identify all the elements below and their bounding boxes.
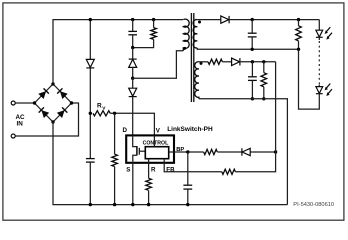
node: rail junction at clamp cap (131, 18, 134, 21)
wire: rail to clamp cap (132, 20, 134, 32)
node: bias rail at cap (251, 60, 254, 63)
wire: bias bleed resistor top lead (263, 62, 265, 73)
wire: divider to ground rail (114, 167, 116, 205)
wire: preload resistor top lead (298, 20, 300, 26)
svg-text:CONTROL: CONTROL (143, 141, 169, 147)
wire: bridge - down to primary ground rail (53, 122, 287, 205)
node: clamp / primary-bottom junction (131, 77, 134, 80)
wire: upper AC line to bridge left node (15, 102, 34, 104)
wire: FB pin to feedback resistor (164, 163, 222, 172)
wire: clamp resistor bottom to clamp node (133, 39, 154, 47)
node: output return at cap (251, 48, 254, 51)
resistor: feedback resistor (222, 169, 236, 174)
diode: bias rectifier (points right) (232, 58, 240, 65)
wire: divider top lead (114, 113, 116, 154)
resistor: V-pin divider lower resistor (112, 154, 118, 166)
wire: output + to LED string (318, 20, 320, 31)
wire: BP cap to ground rail (187, 189, 189, 205)
diode: clamp blocking diode (points up) (129, 58, 137, 60)
node: ground rail at BP cap (186, 203, 189, 206)
wire: BP pin internal stub (169, 151, 174, 153)
bridge rectifier: diamond wires (35, 84, 72, 122)
wire: R pin internal stub (148, 159, 150, 163)
svg-text:R: R (151, 167, 156, 174)
diode: output rectifier (points right) (221, 16, 229, 23)
node: ground rail at divider (113, 203, 116, 206)
wire: preload resistor bottom lead (298, 41, 300, 49)
node: bias return at cap (251, 97, 254, 100)
diode: series drain diode (points down) (132, 78, 134, 88)
wire: R resistor to ground rail (148, 190, 150, 204)
wire: filter cap to ground rail (89, 162, 91, 205)
node: AC input terminal lower (11, 134, 15, 138)
transformer secondary (output) winding (193, 20, 197, 48)
wire: bias winding return to ground riser (199, 99, 288, 205)
wire: sense diode to filter cap (89, 68, 91, 158)
wire: bias cap top lead (251, 62, 253, 77)
wire: output return rail (197, 48, 298, 49)
bridge diode: right edge, points to top node (57, 88, 68, 99)
wire: lower AC line to bridge right node (15, 103, 78, 136)
wire: bias winding top lead (199, 61, 208, 63)
LED D_LED1 (316, 30, 323, 37)
wire: V pin internal stub (153, 135, 155, 146)
wire: HV rail down to line-sense diode (89, 20, 91, 60)
svg-text:IN: IN (17, 121, 24, 128)
transformer core (190, 13, 192, 102)
transformer primary winding (183, 19, 189, 51)
wire: clamp cap bottom lead (132, 35, 134, 48)
node: rail junction at clamp resistor (152, 18, 155, 21)
node: bias rail at resistor (262, 60, 265, 63)
node: output rail at cap (251, 18, 254, 21)
transformer phase dot: secondary top (198, 21, 201, 24)
wire: FB pin internal stub (163, 159, 165, 163)
LED D_LED2 (318, 85, 320, 87)
node: output return at preload / LED return (297, 48, 300, 51)
node: clamp RC bottom junction (131, 46, 134, 49)
wire: R pin lead (148, 163, 150, 179)
bridge diode: bottom-left edge, points to left node (39, 107, 50, 118)
transformer phase dot: primary bottom (183, 47, 186, 50)
wire: bias diode to bias filter rail (240, 61, 276, 63)
wire: output cap bottom lead (251, 37, 253, 49)
node: output rail at preload resistor (297, 18, 300, 21)
svg-text:D: D (123, 127, 128, 134)
resistor: output preload resistor (296, 26, 302, 41)
node: bridge top (+) (51, 82, 54, 85)
resistor RV (horizontal) (93, 111, 110, 116)
node: AC input terminal upper (11, 101, 15, 105)
node: bridge left (AC) (33, 101, 36, 104)
wire: clamp node to clamp diode (132, 48, 134, 59)
node: ground rail at S pin (131, 203, 134, 206)
capacitor: bias filter cap (248, 76, 257, 78)
wire: output + rail (229, 19, 319, 21)
resistor: BP supply resistor (204, 149, 218, 154)
wire: S pin to ground rail (132, 163, 134, 205)
wire: secondary top lead to rectifier (197, 19, 221, 21)
node: bridge right (AC) (70, 101, 73, 104)
wire: LED string return (299, 49, 320, 109)
wire: BP pin lead (174, 151, 204, 153)
svg-text:PI-5430-080610: PI-5430-080610 (293, 202, 334, 208)
node: bias return at resistor (262, 97, 265, 100)
svg-text:R: R (97, 103, 102, 110)
node: ground rail at sense cap (89, 203, 92, 206)
resistor: bias series resistor (208, 59, 222, 64)
wire: feedback resistor to bias node riser (235, 62, 275, 172)
wire: RV node to V pin (110, 113, 154, 135)
svg-text:S: S (126, 166, 130, 173)
wire: bias cap bottom lead (251, 80, 253, 98)
node: bridge bottom (-) (51, 120, 54, 123)
node: bias rail / BP diode junction (274, 150, 277, 153)
transformer phase dot: bias top (200, 62, 203, 65)
capacitor: output filter cap (248, 32, 257, 34)
node: sense diode / RV junction (89, 112, 92, 115)
capacitor: clamp cap (128, 30, 137, 32)
wire: drain diode down to D pin (132, 97, 134, 136)
svg-text:FB: FB (166, 167, 175, 174)
wire: MOSFET gate to CONTROL (139, 150, 145, 152)
transistor: internal MOSFET (133, 135, 137, 146)
wire: bridge + up to top HV rail across to transformer primary (53, 20, 183, 84)
wire: bias resistor to bias diode (222, 61, 231, 63)
svg-text:LinkSwitch-PH: LinkSwitch-PH (167, 126, 213, 133)
wire: dashed LED string continuation (318, 37, 320, 40)
wire: clamp diode to primary-bottom node (132, 67, 134, 78)
diode: line sense series diode (points down) (86, 59, 94, 67)
capacitor: line sense filter cap (86, 158, 95, 160)
node: RV output / divider junction (113, 112, 116, 115)
bridge diode: lower-left AC to + (left edge, points to top node) (38, 88, 49, 99)
wire: BP resistor to BP diode (217, 151, 241, 153)
node: ground rail at R resistor (147, 203, 150, 206)
wire: BP cap top lead (187, 152, 189, 185)
node: rail junction at sense branch (89, 18, 92, 21)
wire: bias bleed resistor bottom lead (263, 87, 265, 99)
resistor: R pin set resistor (146, 178, 152, 190)
resistor: bias bleed resistor (261, 73, 267, 87)
resistor: clamp resistor (151, 28, 157, 40)
capacitor: BP bypass cap (183, 184, 192, 186)
wire: junction to transformer primary bottom (133, 51, 184, 78)
op-amp U1: LinkSwitch-PH IC outline (126, 135, 174, 162)
wire: BP diode to bias node (250, 151, 275, 153)
bridge diode: bottom-right edge, points to right node (57, 107, 68, 118)
transformer bias winding (195, 62, 199, 99)
wire: output cap top lead (251, 20, 253, 33)
CONTROL block (145, 147, 168, 159)
diode: BP supply diode (points left) (241, 148, 243, 155)
node: BP cap junction (186, 150, 189, 153)
wire: rail to clamp resistor (153, 20, 155, 28)
